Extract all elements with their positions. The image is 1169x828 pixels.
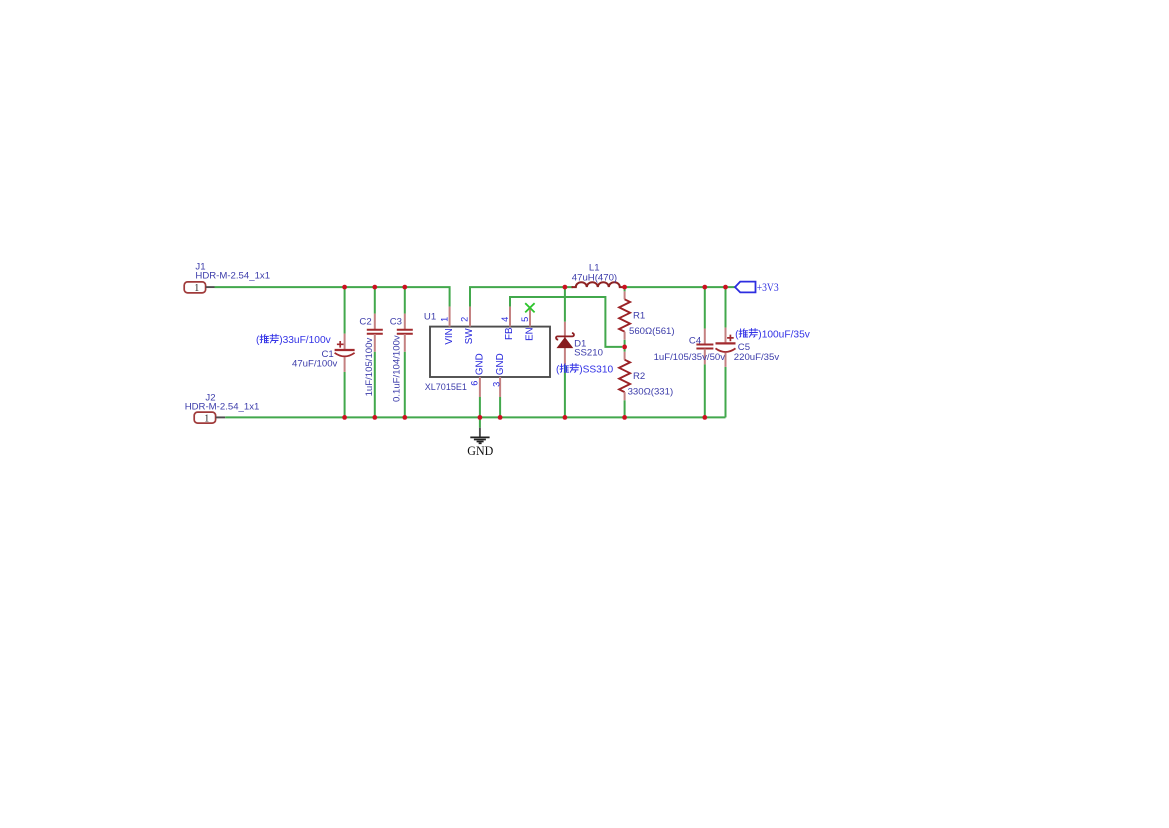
svg-text:6: 6 <box>469 381 479 386</box>
svg-text:C3: C3 <box>390 316 402 327</box>
svg-text:220uF/35v: 220uF/35v <box>734 352 780 363</box>
svg-text:HDR-M-2.54_1x1: HDR-M-2.54_1x1 <box>195 270 270 281</box>
junction bottom rail C2 <box>372 415 377 420</box>
junction top rail C2 <box>372 285 377 290</box>
capacitor C1 <box>335 334 355 372</box>
svg-text:SW: SW <box>464 328 475 345</box>
svg-text:SS210: SS210 <box>574 348 603 359</box>
wire R1 R2 branch <box>624 287 626 417</box>
svg-text:EN: EN <box>524 327 535 341</box>
junction output rail C5 <box>723 285 728 290</box>
svg-text:)100uF/35v: )100uF/35v <box>758 330 810 341</box>
svg-text:47uH(470): 47uH(470) <box>572 272 617 283</box>
junction bottom rail C4 <box>702 415 707 420</box>
wire C4 branch <box>704 287 706 417</box>
svg-text:C4: C4 <box>689 336 702 347</box>
U1 pin 2 SW stub <box>469 307 471 327</box>
capacitor C3 <box>397 314 413 352</box>
svg-text:XL7015E1: XL7015E1 <box>425 382 467 392</box>
junction bottom rail GND pin 6 <box>478 415 483 420</box>
svg-text:GND: GND <box>467 443 493 458</box>
svg-text:47uF/100v: 47uF/100v <box>292 358 338 369</box>
ground symbol <box>470 428 489 444</box>
capacitor C4 <box>696 329 713 365</box>
junction top rail C3 <box>402 285 407 290</box>
label C5 recommended 100uF/35v <box>735 329 811 341</box>
capacitor C2 <box>367 314 383 352</box>
capacitor C5 <box>716 328 736 367</box>
junction bottom rail R2 <box>622 415 627 420</box>
svg-text:)SS310: )SS310 <box>579 365 613 376</box>
junction FB node R1/R2 <box>622 345 627 350</box>
U1 pin 3 GND stub <box>499 377 501 397</box>
connector J1 body <box>184 282 214 293</box>
U1 pin 6 GND stub <box>479 377 481 397</box>
wire top VIN rail <box>215 287 450 307</box>
svg-text:1uF/105/35v/50v: 1uF/105/35v/50v <box>654 352 726 363</box>
junction output rail C4 <box>702 285 707 290</box>
junction output rail L1/R1 <box>622 285 627 290</box>
junction SW node D1 <box>563 285 568 290</box>
svg-text:U1: U1 <box>424 312 436 323</box>
wire GND symbol stem green <box>479 417 481 427</box>
label D1 recommended SS310 <box>556 364 614 376</box>
svg-text:0.1uF/104/100v: 0.1uF/104/100v <box>391 335 402 402</box>
wire C2 branch <box>374 287 376 417</box>
junction bottom rail C3 <box>402 415 407 420</box>
resistor R1 <box>619 291 630 339</box>
svg-text:2: 2 <box>460 317 470 322</box>
svg-text:R1: R1 <box>633 310 645 321</box>
IC U1 body <box>430 327 550 377</box>
U1 pin 4 FB stub <box>509 307 511 327</box>
svg-text:+3V3: +3V3 <box>757 280 779 294</box>
connector J2 body <box>194 412 225 423</box>
wire C1 branch <box>344 287 346 417</box>
svg-text:(: ( <box>256 335 260 346</box>
wire bottom GND rail <box>225 416 725 418</box>
svg-text:)33uF/100v: )33uF/100v <box>279 335 331 346</box>
U1 pin 5 EN stub <box>529 307 531 327</box>
svg-text:(: ( <box>735 330 739 341</box>
wire C5 branch <box>725 287 727 417</box>
svg-text:4: 4 <box>500 317 510 322</box>
junction bottom rail GND pin 3 <box>498 415 503 420</box>
svg-text:GND: GND <box>495 353 506 375</box>
svg-text:1: 1 <box>439 317 449 322</box>
junction top rail C1 <box>342 285 347 290</box>
no-connect X on EN pin <box>525 303 534 312</box>
svg-text:560Ω(561): 560Ω(561) <box>629 326 675 337</box>
wire C3 branch <box>404 287 406 417</box>
resistor R2 <box>619 352 630 400</box>
svg-text:1: 1 <box>204 414 209 425</box>
svg-text:GND: GND <box>475 353 486 375</box>
svg-text:330Ω(331): 330Ω(331) <box>628 387 674 398</box>
svg-text:FB: FB <box>504 327 515 340</box>
junction bottom rail C1 <box>342 415 347 420</box>
wire SW net <box>470 287 565 307</box>
inductor L1 <box>572 282 624 287</box>
label C1 recommended 33uF/100v <box>256 334 332 346</box>
svg-text:1: 1 <box>194 283 199 294</box>
svg-text:VIN: VIN <box>444 328 455 344</box>
svg-text:R2: R2 <box>633 371 645 382</box>
svg-text:5: 5 <box>520 317 530 322</box>
power flag +3V3 <box>735 280 779 294</box>
svg-text:HDR-M-2.54_1x1: HDR-M-2.54_1x1 <box>185 402 260 413</box>
U1 pin 1 VIN stub <box>449 307 451 327</box>
svg-text:C2: C2 <box>359 316 371 327</box>
svg-text:3: 3 <box>492 382 502 387</box>
wire L1 to output rail <box>565 286 735 288</box>
wire FB net <box>510 297 622 347</box>
junction bottom rail D1 <box>563 415 568 420</box>
svg-text:1uF/105/100v: 1uF/105/100v <box>364 338 375 397</box>
wire D1 branch <box>564 287 566 417</box>
wire U1 GND pins to rail <box>480 397 500 417</box>
diode D1 (schottky) <box>556 322 574 365</box>
svg-text:(: ( <box>556 365 560 376</box>
